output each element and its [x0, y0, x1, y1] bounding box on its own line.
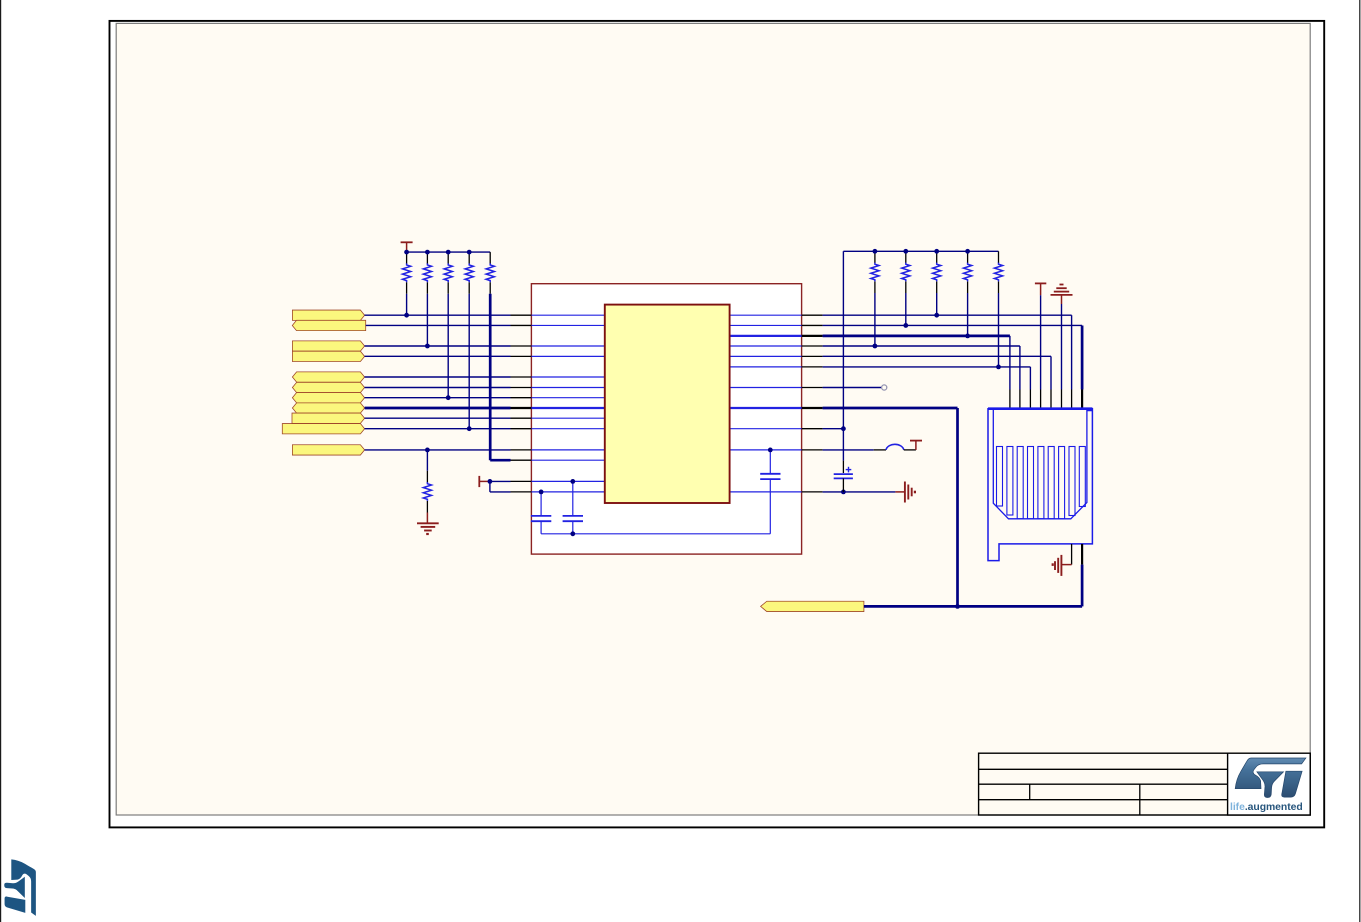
wire (inside sheet symbol, right pin row) — [730, 449, 802, 451]
pin stub (connector top pin 3) — [1029, 390, 1031, 409]
resistor R5 — [489, 252, 491, 264]
junction — [903, 323, 908, 328]
wire (pull-up to net) — [874, 293, 876, 346]
wire (thick, connector shield down) — [1081, 565, 1084, 607]
wire (port to IC) — [365, 345, 511, 347]
resistor R1 — [406, 252, 408, 264]
resistor R11 — [998, 251, 1000, 263]
wire (row to col5) — [823, 355, 1051, 357]
title block row line 1 — [979, 768, 1228, 770]
wire (down) — [489, 481, 491, 492]
wire (port to IC) — [365, 397, 511, 399]
ST logo (title block) — [1230, 758, 1306, 813]
pin stub (right) — [802, 335, 823, 337]
wire (inside sheet symbol, right pin row) — [730, 407, 802, 409]
junction — [841, 426, 846, 431]
pin stub (right) — [802, 449, 823, 451]
junction — [488, 479, 493, 484]
junction — [955, 604, 960, 609]
wire (col3 down) — [1029, 367, 1031, 390]
connector J1 contact finger 1 — [997, 447, 1003, 507]
junction — [934, 313, 939, 318]
wire (row to connector col7) — [823, 314, 1072, 316]
junction — [903, 249, 908, 254]
wire (col1 down) — [1009, 336, 1011, 390]
connector J1 contact finger 9 — [1079, 447, 1085, 507]
pin stub (left) — [511, 480, 532, 482]
wire (inside sheet symbol, right pin row) — [730, 491, 802, 493]
ST logo (page bottom-left corner, rotated) — [4, 859, 36, 916]
wire (port to IC) — [366, 324, 511, 326]
wire (row to ground) — [823, 491, 896, 493]
wire (caps common bottom) — [541, 533, 770, 535]
wire (inside sheet symbol, left pin row) — [531, 324, 604, 326]
pin stub (left) — [511, 417, 532, 419]
pin stub (connector top pin 2) — [1019, 390, 1021, 409]
wire (pull-up to net) — [967, 293, 969, 336]
junction — [425, 344, 430, 349]
connector J1 contact finger 3 — [1017, 447, 1023, 519]
wire (thick row to connector col1) — [823, 335, 1010, 338]
junction — [404, 313, 409, 318]
pin stub (right) — [802, 324, 823, 326]
wire (port to IC) — [365, 387, 511, 389]
pin stub (connector top pin 7) — [1071, 390, 1073, 409]
wire (pull-up to net) — [998, 293, 1000, 367]
wire (port to IC) — [365, 314, 511, 316]
wire (row to col3) — [823, 366, 1031, 368]
title block — [979, 753, 1311, 815]
no-connect marker — [882, 385, 887, 390]
resistor R3 — [447, 252, 449, 264]
wire (col2 down) — [1019, 346, 1021, 390]
wire (bus corner down to C4) — [842, 251, 844, 460]
pin stub (left) — [511, 491, 532, 493]
wire (inside sheet symbol, left pin row) — [531, 459, 604, 461]
resistor R6 — [426, 471, 428, 483]
pin stub (connector top pin 4) — [1040, 390, 1042, 409]
wire (inside sheet symbol, left pin row) — [531, 491, 604, 493]
wire (thick row from IC) — [823, 407, 958, 410]
wire (thick, col8 down) — [1081, 325, 1084, 389]
port P1 — [292, 310, 364, 320]
port P3 — [292, 341, 364, 351]
wire (thick bottom run to port P12) — [864, 605, 1082, 608]
junction — [873, 344, 878, 349]
port P10 — [282, 424, 364, 434]
IC body U1 (yellow rectangle) — [605, 305, 730, 503]
wire (port P11 row down to R6) — [426, 450, 428, 471]
wire (inside sheet symbol, right pin row) — [730, 324, 802, 326]
power bar (right of fuse) — [910, 440, 922, 442]
junction — [934, 249, 939, 254]
pin stub (right) — [802, 366, 823, 368]
junction — [570, 531, 575, 536]
wire (pull-up to net) — [905, 293, 907, 325]
page right edge line — [1359, 0, 1361, 922]
wire (port to IC) — [365, 449, 511, 451]
junction — [965, 334, 970, 339]
wire (inside sheet symbol, left pin row) — [531, 397, 604, 399]
junction — [404, 250, 409, 255]
capacitor C4 (polarized) — [842, 461, 844, 473]
page left edge line — [0, 0, 2, 922]
power bar VDD (left bank) — [401, 241, 413, 243]
wire (pull-up to net) — [936, 293, 938, 315]
junction — [446, 395, 451, 400]
connector J1 contact finger 4 — [1028, 447, 1034, 519]
pin stub (left) — [511, 324, 532, 326]
connector J1 (microSD) outline — [988, 409, 1092, 561]
svg-text:life.augmented: life.augmented — [1230, 802, 1303, 813]
wire (port to IC) — [365, 355, 511, 357]
junction — [996, 365, 1001, 370]
port P11 — [292, 445, 364, 455]
wire (GND down to connector) — [1061, 304, 1063, 390]
resistor R7 — [874, 251, 876, 263]
wire (inside sheet symbol, left pin row) — [531, 449, 604, 451]
wire (right pull-up bus) — [843, 250, 998, 252]
wire (row to connector col8) — [823, 324, 1083, 326]
resistor R9 — [936, 251, 938, 263]
wire (power to IC pin) — [490, 480, 511, 482]
connector J1 contact finger 2 — [1007, 447, 1013, 516]
connector J1 card inner outline — [993, 409, 1092, 519]
title block column line 1 — [1029, 784, 1031, 800]
wire (col5 down) — [1050, 356, 1052, 389]
wire (inside sheet symbol, left pin row) — [531, 417, 604, 419]
connector J1 top edge (thick) — [988, 407, 1092, 410]
ground GND4 (rotated earth, below connector) — [1061, 564, 1071, 566]
connector J1 contact finger 7 — [1059, 447, 1065, 519]
pin stub (right) — [802, 355, 823, 357]
port P12 (bottom) — [761, 601, 864, 611]
wire (row to no-connect) — [823, 387, 882, 389]
wire (inside sheet symbol, left pin row) — [531, 407, 604, 409]
connector J1 contact finger 5 — [1038, 447, 1044, 519]
title block column line 2 — [1139, 784, 1141, 815]
port P4 — [292, 351, 364, 361]
capacitor C1 — [540, 492, 542, 516]
ground GND3 (inverted earth above connector) — [1060, 284, 1064, 286]
wire (inside sheet symbol, left pin row) — [531, 345, 604, 347]
junction — [467, 250, 472, 255]
wire (inside sheet symbol, right pin row) — [730, 355, 802, 357]
junction — [446, 250, 451, 255]
pin stub (connector top pin 5) — [1050, 390, 1052, 409]
wire (inside sheet symbol, left pin row) — [531, 314, 604, 316]
pin stub (left) — [511, 428, 532, 430]
junction — [873, 249, 878, 254]
port P6 — [292, 382, 364, 392]
resistor R4 — [468, 252, 470, 264]
pin stub (left) — [511, 449, 532, 451]
wire (row to cap column) — [823, 428, 844, 430]
junction — [467, 426, 472, 431]
wire (thick vertical down to bottom run) — [956, 408, 959, 606]
pin stub (left) — [511, 355, 532, 357]
wire (inside sheet symbol, left pin row) — [531, 355, 604, 357]
pin stub (left) — [511, 387, 532, 389]
port P5 — [292, 372, 364, 382]
pin stub (right) — [802, 407, 823, 409]
pin stub (left) — [511, 407, 532, 409]
wire (inside sheet symbol, left pin row) — [531, 428, 604, 430]
pin stub (left) — [511, 459, 532, 461]
wire (pull-up to net) — [468, 294, 470, 429]
pin stub (right) — [802, 491, 823, 493]
wire (inside sheet symbol, right pin row) — [730, 335, 802, 337]
wire (pull-up to net) — [406, 294, 408, 315]
port P8 — [292, 403, 364, 413]
junction — [570, 479, 575, 484]
wire (row to fuse) — [823, 449, 874, 451]
wire (row to col2) — [823, 345, 1020, 347]
fuse F1 (arc) — [874, 449, 886, 451]
pin stub (right) — [802, 387, 823, 389]
wire (thick, R5 to row) — [489, 294, 492, 460]
wire (inside sheet symbol, left pin row) — [531, 387, 604, 389]
sheet inner border frame (cream drawing area) — [116, 23, 1310, 815]
connector J1 contact finger 8 — [1069, 447, 1075, 516]
wire (VDD down to connector) — [1040, 295, 1042, 389]
wire (to IC pin) — [490, 491, 511, 493]
pin stub (connector top pin 6) — [1061, 390, 1063, 409]
pin stub (connector top pin 1) — [1009, 390, 1011, 409]
sheet outer border frame — [110, 21, 1325, 828]
wire (thick, port P8 to IC) — [365, 407, 511, 410]
pin stub (left) — [511, 376, 532, 378]
resistor R10 — [967, 251, 969, 263]
power bar (sideways, IC left) — [478, 476, 480, 487]
junction — [425, 250, 430, 255]
wire (inside sheet symbol, left pin row) — [531, 376, 604, 378]
title block logo cell — [1228, 753, 1311, 815]
wire (inside sheet symbol, right pin row) — [730, 345, 802, 347]
ground GND1 (earth, below R6) — [426, 513, 428, 524]
pin stub (connector top pin 8) — [1081, 390, 1083, 409]
connector J1 contact finger 6 — [1048, 447, 1054, 519]
junction — [841, 490, 846, 495]
wire (inside sheet symbol, right pin row) — [730, 314, 802, 316]
wire (col7 down) — [1071, 315, 1073, 389]
wire (inside sheet symbol, right pin row) — [730, 387, 802, 389]
wire (port to IC) — [365, 417, 511, 419]
resistor R8 — [905, 251, 907, 263]
junction — [425, 448, 430, 453]
junction — [965, 249, 970, 254]
sheet symbol box (white, dark red border) — [531, 284, 801, 554]
wire (thick elbow to IC) — [490, 459, 510, 462]
ground GND2 (rotated earth, right of IC) — [895, 491, 905, 493]
pin stub (right) — [802, 345, 823, 347]
capacitor C3 (right of IC, decoupling) — [769, 450, 771, 474]
port P9 — [292, 413, 365, 423]
wire (left pull-up bus) — [407, 251, 491, 253]
wire (inside sheet symbol, left pin row) — [531, 480, 604, 482]
power bar (connector VDD) — [1035, 282, 1046, 284]
wire (port to IC) — [365, 428, 511, 430]
pin stub (connector shield pin, thick) — [1081, 544, 1083, 565]
pin stub (left) — [511, 345, 532, 347]
pin stub (connector GND pin) — [1071, 544, 1073, 565]
wire (pull-up to net) — [426, 294, 428, 346]
pin stub (right) — [802, 314, 823, 316]
port P7 — [292, 393, 364, 403]
junction — [539, 490, 544, 495]
pin stub (right) — [802, 428, 823, 430]
title block row line 2 — [979, 783, 1228, 785]
wire (inside sheet symbol, right pin row) — [730, 428, 802, 430]
pin stub (left) — [511, 397, 532, 399]
wire (inside sheet symbol, right pin row) — [730, 366, 802, 368]
pin stub (left) — [511, 314, 532, 316]
wire (port to IC) — [365, 376, 511, 378]
wire (pull-up to net) — [447, 294, 449, 398]
resistor R2 — [426, 252, 428, 264]
junction — [768, 448, 773, 453]
capacitor C2 — [572, 481, 574, 516]
title block row line 3 — [979, 799, 1228, 801]
port P2 — [292, 320, 365, 330]
